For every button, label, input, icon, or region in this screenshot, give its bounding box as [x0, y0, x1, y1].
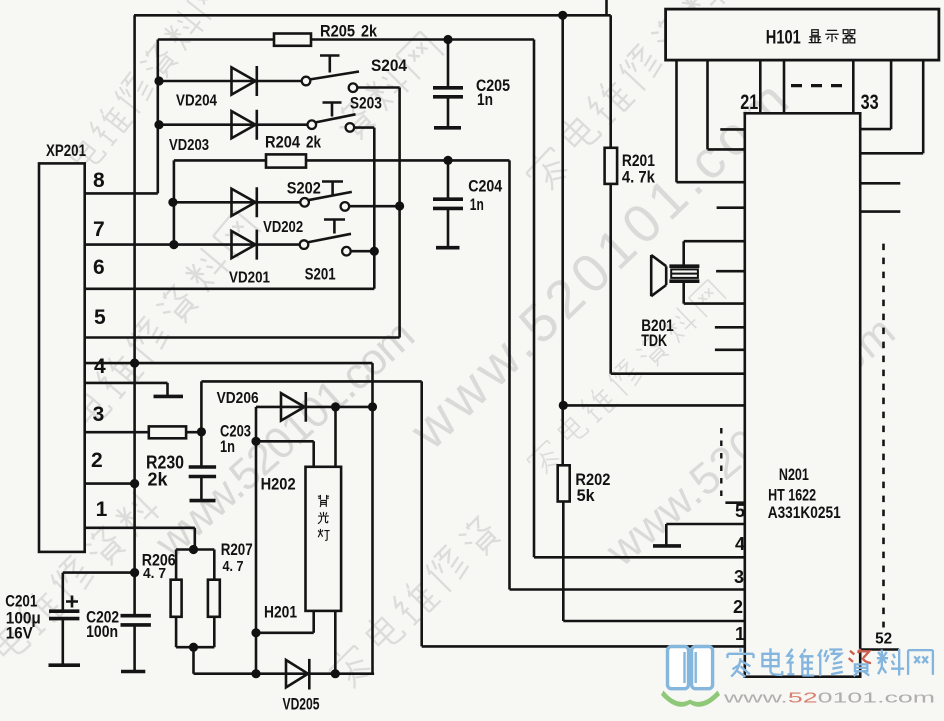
svg-text:VD203: VD203	[169, 137, 209, 154]
svg-text:4. 7: 4. 7	[223, 558, 244, 575]
svg-text:H202: H202	[261, 475, 296, 494]
svg-text:VD206: VD206	[217, 390, 259, 407]
svg-text:S203: S203	[350, 94, 382, 113]
svg-text:6: 6	[93, 256, 105, 279]
svg-text:1n: 1n	[477, 90, 493, 109]
svg-text:N201: N201	[779, 465, 809, 484]
svg-text:R204: R204	[265, 133, 300, 152]
svg-text:S201: S201	[305, 265, 336, 284]
svg-text:2k: 2k	[148, 470, 169, 490]
svg-text:8: 8	[93, 169, 105, 192]
svg-text:S202: S202	[287, 179, 321, 198]
svg-text:VD204: VD204	[176, 93, 217, 110]
svg-text:S204: S204	[371, 56, 407, 75]
svg-text:2: 2	[733, 597, 743, 617]
svg-text:VD205: VD205	[283, 695, 320, 714]
svg-text:4: 4	[94, 355, 106, 378]
svg-text:4. 7: 4. 7	[143, 565, 166, 582]
svg-text:H101: H101	[766, 28, 801, 49]
svg-text:VD202: VD202	[263, 219, 303, 236]
svg-text:2k: 2k	[361, 22, 377, 41]
svg-text:3: 3	[734, 567, 744, 587]
svg-text:C204: C204	[468, 177, 502, 196]
svg-text:XP201: XP201	[46, 141, 86, 160]
svg-text:1: 1	[96, 498, 108, 521]
svg-text:7: 7	[93, 218, 105, 241]
svg-text:1n: 1n	[220, 437, 235, 456]
svg-text:A331K0251: A331K0251	[768, 503, 841, 522]
svg-text:33: 33	[861, 91, 879, 114]
svg-text:2: 2	[91, 449, 103, 472]
svg-text:21: 21	[740, 91, 758, 114]
svg-text:2k: 2k	[306, 133, 321, 152]
svg-text:100n: 100n	[86, 622, 118, 641]
svg-text:3: 3	[93, 403, 105, 426]
svg-text:VD201: VD201	[229, 270, 270, 287]
svg-text:H201: H201	[264, 603, 297, 622]
svg-text:R205: R205	[320, 22, 355, 41]
svg-text:TDK: TDK	[641, 331, 668, 350]
svg-text:1: 1	[735, 624, 745, 644]
svg-text:5: 5	[735, 501, 745, 521]
svg-text:16V: 16V	[6, 624, 34, 643]
svg-text:R207: R207	[221, 540, 253, 559]
svg-text:4. 7k: 4. 7k	[622, 168, 655, 187]
svg-text:4: 4	[735, 534, 745, 554]
svg-text:1n: 1n	[470, 195, 484, 214]
svg-text:www.520101.com: www.520101.com	[722, 690, 935, 707]
svg-text:5k: 5k	[577, 486, 596, 505]
svg-text:52: 52	[875, 631, 892, 648]
svg-text:5: 5	[94, 306, 106, 329]
svg-text:HT 1622: HT 1622	[768, 486, 816, 505]
